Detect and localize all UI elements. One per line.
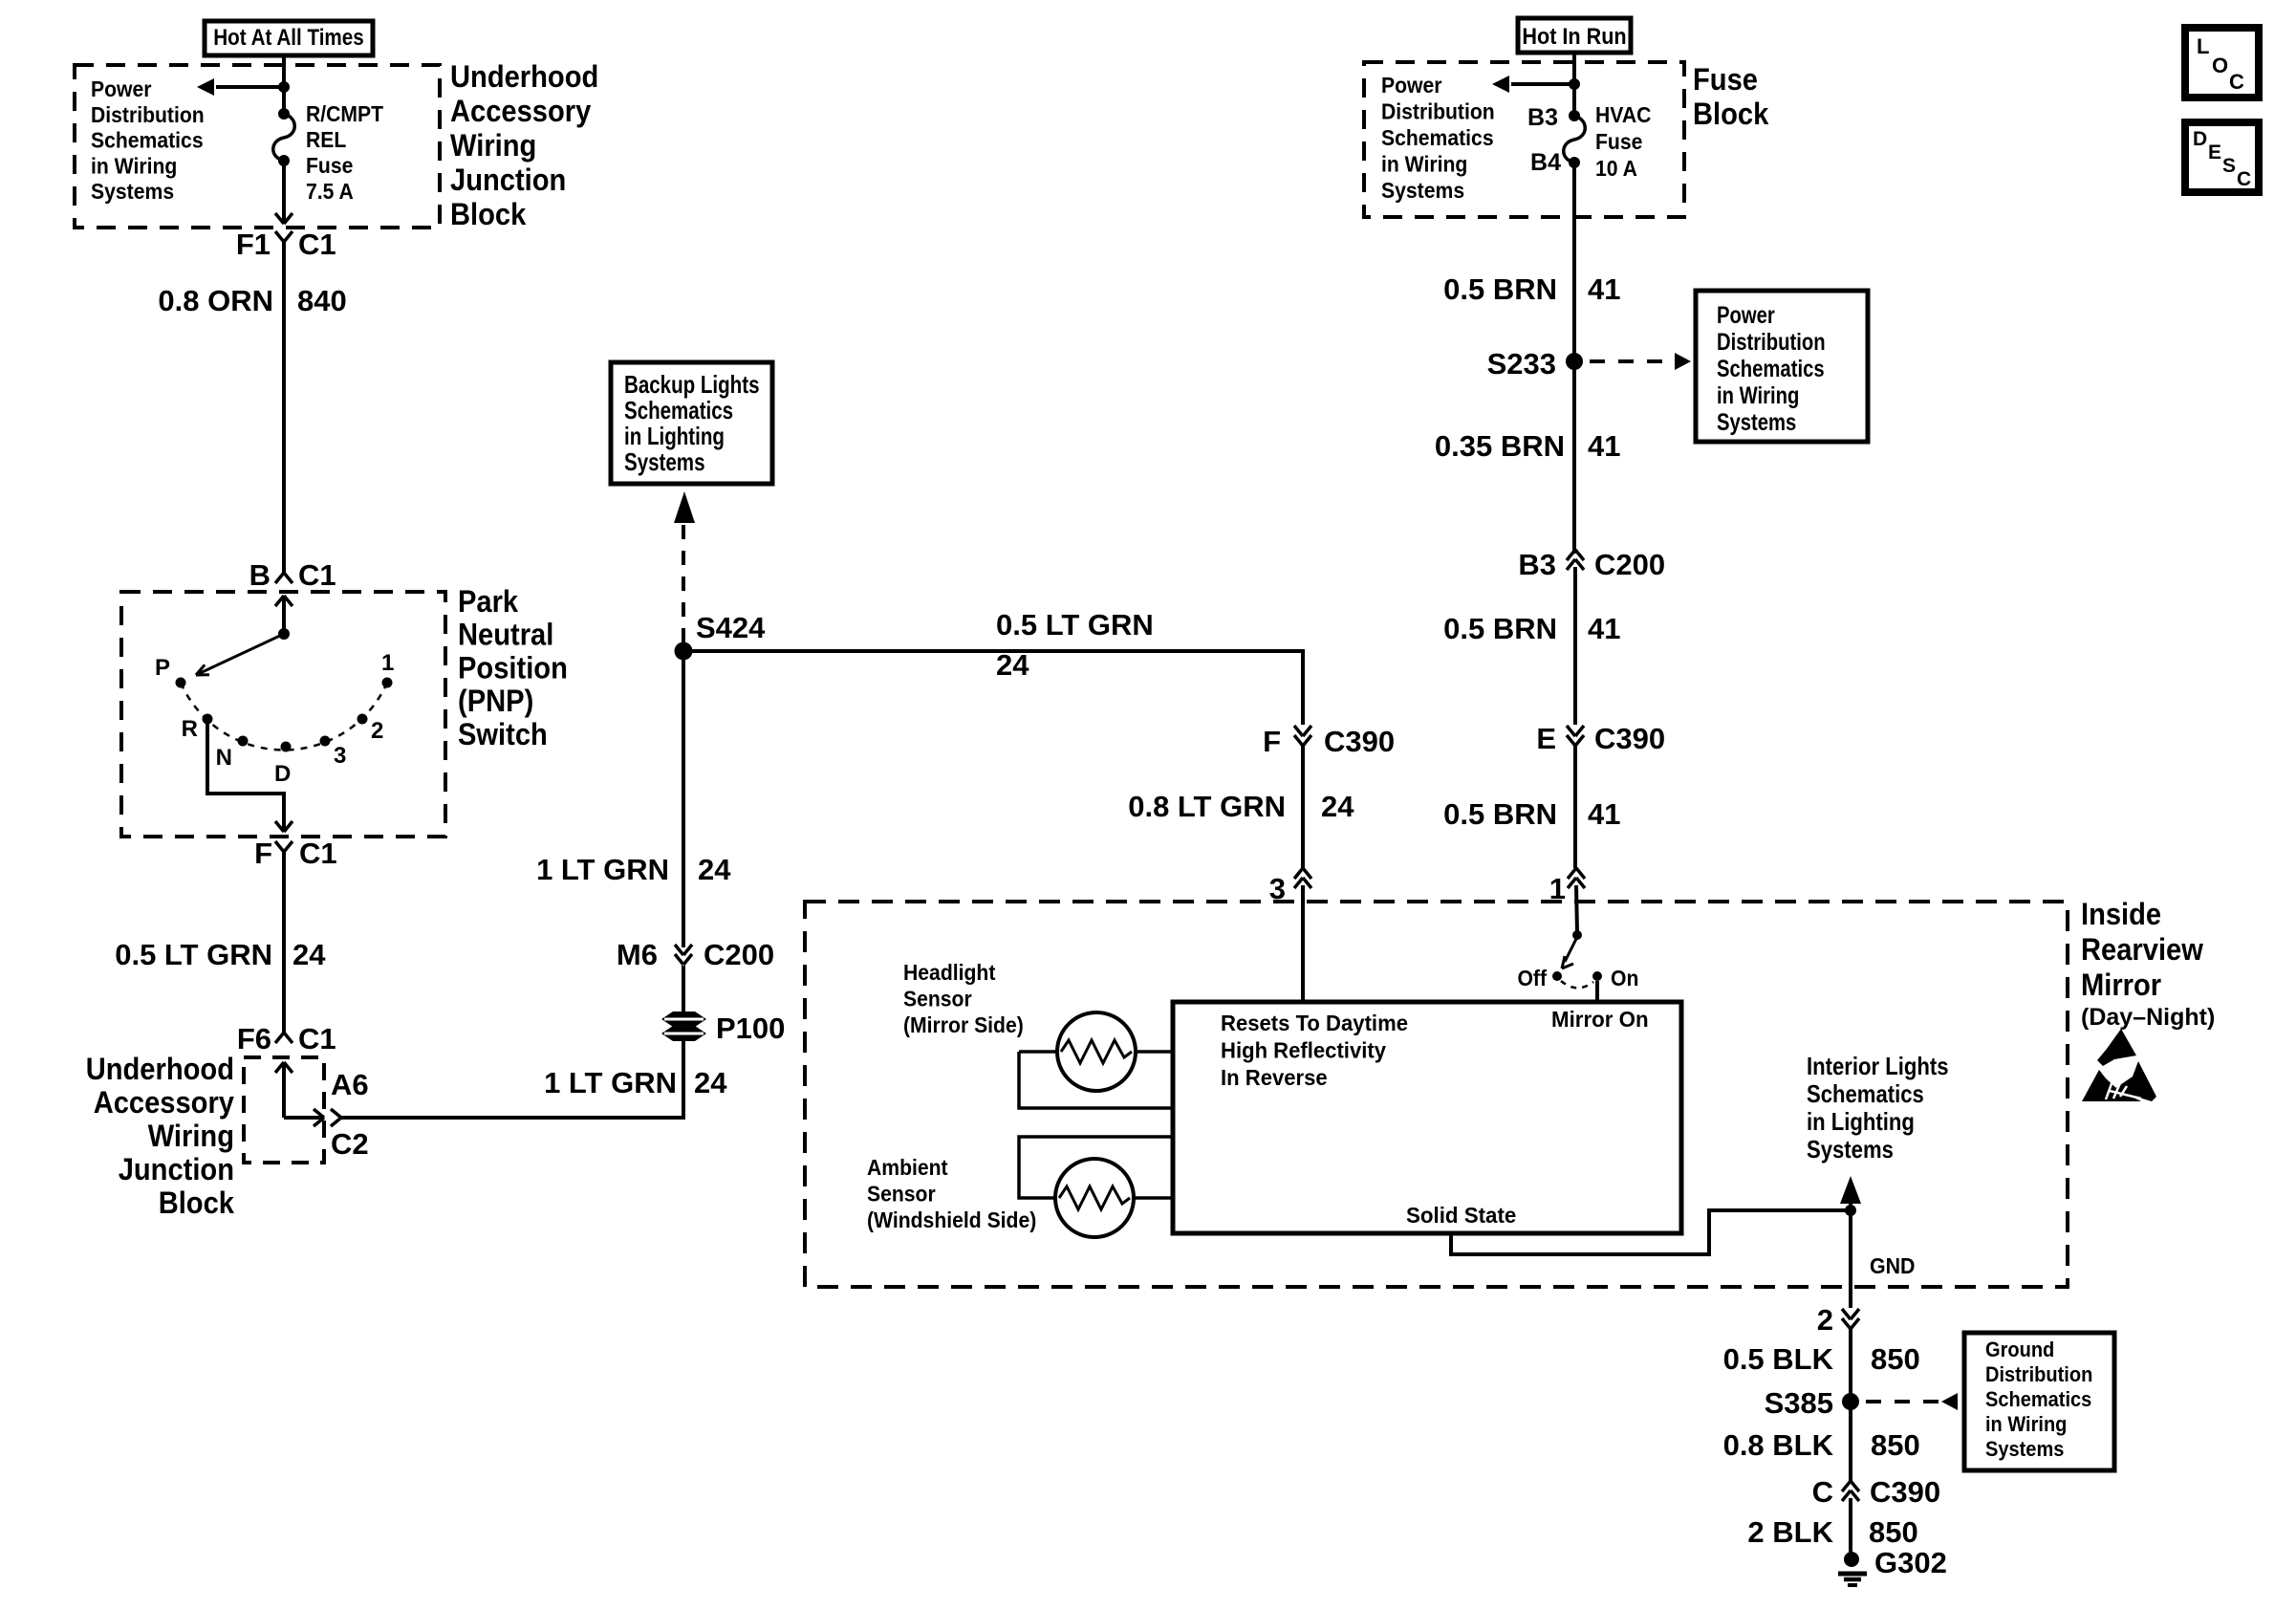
svg-text:Underhood: Underhood — [450, 59, 598, 94]
svg-text:1 LT GRN: 1 LT GRN — [544, 1066, 677, 1099]
svg-text:P100: P100 — [716, 1012, 785, 1045]
svg-text:F: F — [1263, 725, 1281, 758]
svg-text:Mirror On: Mirror On — [1551, 1007, 1649, 1032]
svg-text:Power: Power — [1717, 302, 1775, 329]
svg-text:Switch: Switch — [458, 717, 548, 751]
svg-text:Block: Block — [159, 1186, 234, 1220]
connector C390 pin E (inline) — [1567, 726, 1575, 736]
svg-text:Park: Park — [458, 584, 518, 619]
svg-text:in Wiring: in Wiring — [1717, 382, 1799, 409]
svg-text:Backup Lights: Backup Lights — [624, 370, 760, 399]
svg-text:B3: B3 — [1518, 548, 1556, 581]
contact 3 — [320, 736, 331, 747]
svg-text:F6: F6 — [237, 1022, 271, 1055]
connector C390 pin C (inline) — [1842, 1490, 1851, 1501]
node: ground junction at GND pin — [1845, 1205, 1856, 1216]
svg-text:F: F — [254, 837, 272, 870]
wire: 1 LT GRN 24 from C2 A6 to P100 — [341, 1041, 683, 1118]
svg-text:850: 850 — [1871, 1342, 1920, 1376]
svg-text:Off: Off — [1518, 966, 1548, 990]
reference arrow to Power Distribution Schematics (fuse block) — [1511, 82, 1574, 86]
reference box: Power Distribution Schematics in Wiring Systems — [1696, 291, 1868, 442]
connector C200 pin B3 (inline) — [1567, 559, 1575, 570]
svg-text:R: R — [182, 716, 198, 742]
connector C1 pin B (female half at PNP switch) — [275, 573, 284, 583]
label box: Hot In Run — [1518, 18, 1631, 53]
svg-text:41: 41 — [1588, 797, 1620, 831]
svg-text:C200: C200 — [704, 938, 774, 971]
svg-text:Distribution: Distribution — [1985, 1362, 2092, 1386]
svg-text:(PNP): (PNP) — [458, 684, 533, 718]
contact Off — [1552, 971, 1562, 981]
svg-text:Rearview: Rearview — [2081, 932, 2203, 967]
svg-text:B3: B3 — [1527, 104, 1558, 131]
dashed box: fuse block — [1364, 62, 1684, 217]
connector C200 pin M6 (inline) — [675, 945, 683, 955]
svg-text:G302: G302 — [1874, 1546, 1947, 1579]
svg-text:F1: F1 — [236, 228, 271, 261]
male connector arrow into PNP switch — [275, 596, 284, 606]
svg-text:0.5 BLK: 0.5 BLK — [1723, 1342, 1834, 1376]
svg-text:Neutral: Neutral — [458, 618, 553, 652]
reference box: Ground Distribution Schematics in Wiring Systems — [1964, 1333, 2114, 1470]
svg-text:M6: M6 — [617, 938, 658, 971]
svg-text:Accessory: Accessory — [94, 1085, 234, 1120]
dashed box: underhood accessory wiring junction block (lower) — [244, 1057, 324, 1163]
wire: 0.5 BLK 850 from pin 2 to S385 — [1849, 1329, 1852, 1402]
wire: 2 BLK 850 from C C390 to ground G302 — [1849, 1498, 1852, 1556]
svg-text:0.8 BLK: 0.8 BLK — [1723, 1428, 1834, 1462]
svg-text:24: 24 — [1321, 790, 1354, 823]
svg-text:in Wiring: in Wiring — [91, 153, 177, 178]
svg-text:Systems: Systems — [1985, 1437, 2064, 1461]
svg-text:Block: Block — [1693, 97, 1768, 131]
svg-text:Junction: Junction — [450, 163, 566, 197]
reference arrow to Power Distribution Schematics — [216, 85, 284, 89]
svg-text:0.35 BRN: 0.35 BRN — [1435, 429, 1565, 463]
svg-text:Sensor: Sensor — [867, 1182, 936, 1207]
svg-text:Systems: Systems — [91, 179, 174, 204]
dashed reference arrow to Power Distribution Schematics box — [1590, 359, 1671, 363]
svg-text:Schematics: Schematics — [1807, 1079, 1924, 1108]
svg-text:41: 41 — [1588, 612, 1620, 645]
male connector arrow at junction block edge — [275, 213, 284, 224]
svg-text:Interior Lights: Interior Lights — [1807, 1052, 1949, 1080]
svg-text:GND: GND — [1870, 1253, 1916, 1278]
connector C1 pin F6 (female half) — [275, 1033, 284, 1043]
splice S385 — [1842, 1393, 1859, 1410]
wire: headlight sensor leads — [1019, 1050, 1057, 1054]
dashed arc between Off and On — [1561, 981, 1593, 988]
svg-text:in Lighting: in Lighting — [1807, 1107, 1915, 1136]
svg-text:(Windshield Side): (Windshield Side) — [867, 1207, 1036, 1232]
wire: 1 LT GRN 24 from splice S424 down to M6 C200 — [682, 659, 685, 947]
svg-text:Mirror: Mirror — [2081, 968, 2161, 1002]
svg-text:24: 24 — [698, 853, 731, 886]
wire: On contact into module (Mirror On) — [1595, 981, 1599, 1002]
svg-text:in Wiring: in Wiring — [1381, 152, 1467, 177]
svg-text:Distribution: Distribution — [1381, 99, 1495, 124]
svg-text:2 BLK: 2 BLK — [1747, 1515, 1833, 1549]
svg-text:S424: S424 — [696, 611, 766, 644]
dashed reference arrow to Ground Distribution Schematics box — [1866, 1400, 1939, 1403]
svg-text:7.5 A: 7.5 A — [306, 179, 354, 204]
node: PNP switch common — [278, 628, 290, 640]
svg-text:0.5 LT GRN: 0.5 LT GRN — [996, 608, 1154, 642]
svg-text:P: P — [155, 655, 170, 681]
svg-text:D: D — [274, 761, 291, 787]
svg-text:D: D — [2193, 128, 2207, 150]
wire: Hot At All Times feed into junction block — [282, 55, 286, 114]
ESD sensitive device symbol — [2082, 1029, 2156, 1101]
switch wiper arm to position P — [196, 634, 284, 675]
contact On — [1592, 971, 1602, 981]
svg-text:E: E — [1536, 722, 1556, 755]
svg-text:S: S — [2222, 155, 2236, 177]
connector C390 pin F (inline) — [1294, 726, 1303, 736]
svg-text:850: 850 — [1869, 1515, 1918, 1549]
svg-text:R/CMPT: R/CMPT — [306, 101, 383, 126]
wire: P100 up to connector C200 pin M6 — [682, 966, 685, 1012]
wire: Hot In Run feed — [1572, 52, 1576, 116]
wire: 0.8 ORN 840 from F1 C1 to PNP switch — [282, 256, 286, 573]
svg-text:C390: C390 — [1594, 722, 1665, 755]
wire: 0.5 BRN 41 from B3 C200 to E C390 — [1573, 567, 1577, 725]
wire: fuse output to junction block edge — [282, 161, 286, 223]
splice S424 — [675, 642, 693, 661]
svg-text:Solid State: Solid State — [1406, 1203, 1516, 1228]
svg-text:Resets To Daytime: Resets To Daytime — [1221, 1011, 1408, 1035]
wire: pin 3 into solid state module — [1301, 885, 1305, 1002]
svg-text:Systems: Systems — [1807, 1135, 1894, 1164]
svg-text:0.8 LT GRN: 0.8 LT GRN — [1128, 790, 1286, 823]
svg-text:Wiring: Wiring — [450, 128, 536, 163]
svg-text:0.5 BRN: 0.5 BRN — [1443, 272, 1557, 306]
male connector arrow into junction block — [275, 1062, 284, 1073]
contact N — [238, 736, 249, 747]
svg-text:(Day–Night): (Day–Night) — [2081, 1004, 2215, 1031]
svg-text:850: 850 — [1871, 1428, 1920, 1462]
svg-text:0.8 ORN: 0.8 ORN — [158, 284, 273, 317]
svg-text:L: L — [2197, 34, 2209, 58]
svg-text:Schematics: Schematics — [1985, 1387, 2091, 1411]
svg-text:C1: C1 — [298, 228, 336, 261]
svg-text:C: C — [2229, 70, 2244, 94]
svg-text:C1: C1 — [298, 558, 336, 592]
wire: 0.35 BRN 41 from S233 to C200 pin B3 — [1572, 361, 1576, 554]
svg-text:Distribution: Distribution — [91, 102, 205, 127]
svg-text:Distribution: Distribution — [1717, 329, 1826, 356]
svg-text:24: 24 — [292, 938, 326, 971]
svg-text:41: 41 — [1588, 272, 1620, 306]
svg-text:2: 2 — [371, 718, 383, 744]
svg-text:41: 41 — [1588, 429, 1620, 463]
svg-text:Sensor: Sensor — [903, 987, 972, 1012]
wire: 0.5 BRN 41 from E C390 to mirror pin 1 — [1573, 746, 1577, 868]
dashed box: park neutral position PNP switch — [121, 592, 445, 837]
svg-text:0.5 LT GRN: 0.5 LT GRN — [115, 938, 272, 971]
svg-text:Power: Power — [91, 76, 152, 101]
svg-text:N: N — [216, 745, 232, 771]
svg-text:C1: C1 — [298, 1022, 336, 1055]
wire: 0.8 BLK 850 from S385 to C390 pin C — [1849, 1402, 1852, 1481]
svg-text:Schematics: Schematics — [1381, 125, 1494, 150]
dashed box: inside rearview mirror (day-night) — [805, 902, 2068, 1287]
legend box LOC — [2185, 28, 2259, 98]
svg-text:Wiring: Wiring — [148, 1119, 234, 1153]
svg-text:24: 24 — [694, 1066, 727, 1099]
node: junction to power distribution reference — [278, 81, 290, 93]
connector: mirror pin 2 (inline) — [1842, 1309, 1851, 1319]
solid state module box (mirror) — [1173, 1002, 1681, 1233]
svg-text:Fuse: Fuse — [1595, 129, 1642, 154]
contact R — [203, 714, 213, 725]
svg-text:High Reflectivity: High Reflectivity — [1221, 1038, 1386, 1063]
dashed arc: PNP switch positions — [181, 683, 387, 750]
switch: mirror power (Off/On) — [1572, 930, 1582, 940]
svg-text:3: 3 — [334, 743, 346, 769]
svg-text:in Lighting: in Lighting — [624, 422, 725, 450]
splice S233 — [1566, 353, 1583, 370]
svg-text:Schematics: Schematics — [624, 396, 733, 424]
svg-text:HVAC: HVAC — [1595, 102, 1651, 127]
contact P — [176, 678, 186, 688]
svg-text:Systems: Systems — [624, 447, 705, 476]
ambient sensor (photocell, windshield side) — [1055, 1159, 1134, 1237]
svg-text:S385: S385 — [1765, 1386, 1833, 1420]
svg-text:Fuse: Fuse — [1693, 62, 1758, 97]
svg-text:Ground: Ground — [1985, 1338, 2054, 1361]
svg-text:E: E — [2208, 141, 2221, 163]
svg-text:C: C — [2237, 168, 2251, 190]
svg-text:Power: Power — [1381, 73, 1442, 98]
headlight sensor (photocell, mirror side) — [1057, 1012, 1136, 1091]
wire: from contact R to connector C1 pin F — [207, 719, 284, 831]
label box: Hot At All Times — [205, 21, 373, 55]
svg-text:Schematics: Schematics — [91, 128, 204, 153]
svg-text:Block: Block — [450, 197, 526, 231]
svg-text:Underhood: Underhood — [86, 1052, 234, 1086]
dashed reference arrow to Backup Lights Schematics — [682, 524, 685, 642]
svg-text:C1: C1 — [299, 837, 337, 870]
contact D — [281, 742, 292, 752]
svg-text:10 A: 10 A — [1595, 156, 1637, 181]
wire: ambient sensor leads — [1019, 1137, 1173, 1198]
svg-text:B4: B4 — [1530, 149, 1561, 176]
reference arrow to Interior Lights Schematics — [1849, 1202, 1852, 1210]
svg-text:B: B — [249, 558, 271, 592]
legend box DESC — [2185, 122, 2259, 192]
svg-text:Accessory: Accessory — [450, 94, 591, 128]
connector C1 pin F (female) — [275, 841, 284, 852]
svg-text:24: 24 — [996, 648, 1029, 682]
wire: solid state ground output — [1451, 1210, 1851, 1254]
wire: 0.5 LT GRN 24 from S424 to C390 pin F — [683, 651, 1303, 725]
grommet P100 — [661, 1012, 706, 1027]
svg-text:In Reverse: In Reverse — [1221, 1065, 1328, 1090]
svg-text:Systems: Systems — [1381, 178, 1464, 203]
svg-text:in Wiring: in Wiring — [1985, 1412, 2067, 1436]
svg-text:Ambient: Ambient — [867, 1155, 948, 1180]
svg-text:C390: C390 — [1870, 1475, 1940, 1509]
wire: 0.5 BRN 41 from fuse to S233 — [1572, 163, 1576, 361]
svg-text:Hot At All Times: Hot At All Times — [213, 25, 364, 51]
fuse R/CMPT REL 7.5 A — [278, 108, 290, 120]
svg-text:(Mirror Side): (Mirror Side) — [903, 1012, 1024, 1037]
svg-text:Systems: Systems — [1717, 409, 1796, 436]
svg-text:0.5 BRN: 0.5 BRN — [1443, 612, 1557, 645]
svg-text:Fuse: Fuse — [306, 153, 353, 178]
dashed box: underhood accessory wiring junction block (power distribution) — [75, 65, 440, 228]
svg-text:1 LT GRN: 1 LT GRN — [536, 853, 669, 886]
svg-text:1: 1 — [381, 650, 394, 676]
wire: 0.8 LT GRN 24 to mirror pin 3 — [1301, 746, 1305, 868]
svg-text:840: 840 — [297, 284, 347, 317]
svg-text:Hot In Run: Hot In Run — [1522, 24, 1626, 50]
svg-text:Inside: Inside — [2081, 897, 2161, 931]
contact 1 — [382, 678, 393, 688]
connector C1 pin F1 (female) — [275, 231, 284, 242]
wire: junction block internal to C2 pin A6 — [284, 1116, 322, 1120]
reference box: Backup Lights Schematics in Lighting Systems — [611, 362, 772, 484]
ground G302 — [1844, 1552, 1859, 1567]
male connector arrow at PNP switch bottom edge — [275, 821, 284, 832]
wire: GND pin to mirror case edge — [1849, 1210, 1852, 1308]
svg-text:REL: REL — [306, 127, 346, 152]
svg-text:C200: C200 — [1594, 548, 1665, 581]
node: junction to power distribution reference (fuse block) — [1569, 78, 1580, 90]
svg-text:Schematics: Schematics — [1717, 356, 1825, 382]
svg-text:0.5 BRN: 0.5 BRN — [1443, 797, 1557, 831]
svg-text:C2: C2 — [331, 1127, 369, 1161]
svg-text:C390: C390 — [1324, 725, 1395, 758]
contact 2 — [357, 714, 368, 725]
connector: mirror pin 3 (inline) — [1294, 878, 1303, 888]
svg-text:Junction: Junction — [119, 1152, 234, 1186]
svg-text:S233: S233 — [1487, 347, 1556, 381]
wire: 0.5 LT GRN 24 to junction block — [282, 865, 286, 1033]
svg-text:On: On — [1611, 966, 1638, 990]
connector: mirror pin 1 (inline) — [1568, 878, 1576, 888]
svg-text:O: O — [2212, 54, 2228, 77]
svg-text:A6: A6 — [331, 1068, 369, 1101]
svg-text:2: 2 — [1817, 1303, 1833, 1337]
svg-text:Headlight: Headlight — [903, 960, 996, 985]
svg-text:C: C — [1812, 1475, 1833, 1509]
svg-text:Position: Position — [458, 650, 568, 685]
connector C2 female half — [331, 1109, 341, 1118]
wire: pin 1 to mirror power switch — [1576, 885, 1577, 933]
connector C2 pin A6 (male arrow at block edge) — [314, 1109, 324, 1118]
fuse HVAC 10 A — [1569, 110, 1580, 121]
